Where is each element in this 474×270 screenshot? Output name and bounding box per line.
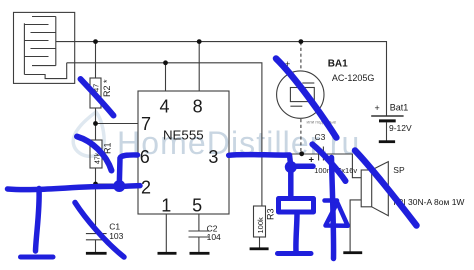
svg-text:Bat1: Bat1 (390, 102, 409, 112)
svg-text:104: 104 (207, 232, 221, 242)
svg-text:100k: 100k (256, 217, 265, 234)
svg-text:NE555: NE555 (163, 127, 204, 142)
svg-text:BA1: BA1 (328, 58, 348, 69)
svg-text:8: 8 (193, 97, 203, 117)
svg-text:AC-1205G: AC-1205G (332, 73, 375, 83)
svg-text:103: 103 (109, 231, 123, 241)
svg-text:6: 6 (140, 147, 150, 167)
svg-text:+: + (375, 103, 380, 113)
svg-text:R2 *: R2 * (102, 79, 112, 97)
svg-text:C1: C1 (109, 222, 120, 232)
svg-text:2: 2 (141, 178, 151, 198)
svg-text:3: 3 (208, 147, 218, 167)
svg-text:R3: R3 (266, 208, 276, 220)
svg-text:C3: C3 (315, 132, 326, 142)
svg-text:1: 1 (161, 196, 171, 216)
svg-text:SP: SP (393, 165, 405, 175)
svg-text:7: 7 (141, 114, 151, 134)
svg-text:5: 5 (192, 196, 202, 216)
svg-text:4: 4 (159, 97, 169, 117)
svg-text:9-12V: 9-12V (389, 123, 412, 133)
